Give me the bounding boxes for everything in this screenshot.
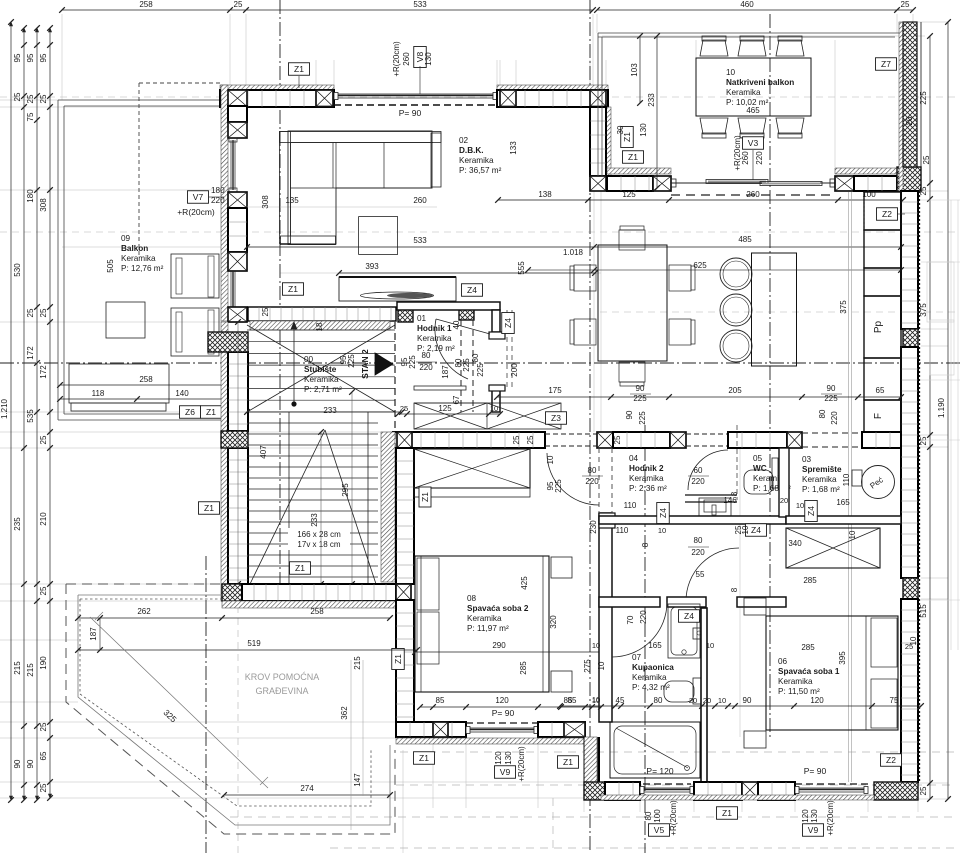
pier X north x590 [590,90,606,107]
wc toilet [772,458,778,488]
svg-text:25: 25 [13,92,22,101]
svg-text:130: 130 [424,52,433,66]
svg-text:Z1: Z1 [288,284,298,294]
svg-text:Keramika: Keramika [629,474,664,483]
balcony 09 armchair 2 [171,308,219,356]
svg-text:Z1: Z1 [295,563,305,573]
svg-text:110: 110 [624,501,637,510]
balcony 09 armchair 1 [171,254,219,298]
svg-text:258: 258 [310,607,324,616]
stair treads upper [247,329,395,331]
label box Z1 closet [419,487,431,507]
sideboard with tv [339,277,456,301]
svg-text:133: 133 [509,141,518,155]
svg-text:30: 30 [616,125,625,134]
svg-text:220: 220 [211,196,225,205]
svg-text:110: 110 [842,473,851,486]
svg-text:120: 120 [801,809,810,823]
stair V lines lower [250,430,325,584]
svg-text:Z4: Z4 [751,525,761,535]
svg-text:80: 80 [588,466,597,475]
window V7 west [230,140,232,190]
label box Z3 [546,412,567,425]
svg-text:220: 220 [830,411,839,425]
svg-text:95: 95 [26,53,35,62]
vertical dims near balcony 103 233 130 [639,36,641,103]
svg-text:Keramika: Keramika [778,677,813,686]
kitchen counter front lines [848,192,850,782]
svg-text:V9: V9 [500,767,511,777]
svg-text:80: 80 [694,536,703,545]
svg-text:P: 11,97 m²: P: 11,97 m² [467,624,509,633]
wall stairs south y584 [222,584,242,601]
pier X north x500 [500,90,516,107]
coffee table [359,217,398,255]
svg-text:25: 25 [26,94,35,103]
svg-text:120: 120 [494,751,503,765]
svg-text:45: 45 [616,696,625,705]
wall y432 right of door [728,432,787,448]
svg-text:V3: V3 [748,138,759,148]
svg-text:Z1: Z1 [420,492,430,502]
svg-text:533: 533 [413,0,427,9]
label box Z1 balcony [201,406,222,419]
svg-text:215: 215 [26,663,35,677]
krov dims [78,617,390,619]
svg-text:220: 220 [691,548,705,557]
svg-text:Keramika: Keramika [417,334,452,343]
svg-text:+R(20cm): +R(20cm) [392,41,401,77]
svg-text:235: 235 [13,517,22,531]
svg-text:Z3: Z3 [551,413,561,423]
balcony 09 outline [58,100,222,420]
extension grid lines [0,99,222,101]
svg-text:375: 375 [919,303,928,317]
svg-text:165: 165 [836,498,850,507]
dining chair top [619,230,645,250]
svg-text:F: F [873,413,884,419]
svg-text:308: 308 [261,195,270,209]
svg-text:20: 20 [689,696,697,705]
svg-text:KROV POMOĆNA: KROV POMOĆNA [245,672,320,682]
bed bedroom1 [766,616,898,730]
svg-text:90: 90 [26,759,35,768]
top dim chain [62,9,593,11]
svg-text:06: 06 [778,657,788,666]
svg-text:GRAĐEVINA: GRAĐEVINA [255,686,308,696]
opening dashes hodnik1 east [506,310,508,387]
svg-text:20: 20 [905,116,914,125]
closet X hodnik1 south [414,403,561,429]
svg-text:258: 258 [139,0,153,9]
svg-text:258: 258 [139,375,153,384]
window west lower [230,271,232,307]
bedroom1 entry arc [686,548,739,601]
dining chairs right [669,265,691,291]
svg-text:02: 02 [459,136,469,145]
svg-text:25: 25 [39,586,48,595]
svg-text:172: 172 [26,346,35,360]
bar stools circles [720,258,752,290]
svg-text:P: 2,36 m²: P: 2,36 m² [629,484,667,493]
svg-text:8: 8 [641,542,650,547]
svg-text:233: 233 [647,93,656,107]
svg-text:70: 70 [626,615,635,624]
svg-text:10: 10 [490,404,498,413]
main interior wall y432 left segment [393,432,545,448]
svg-text:P: 11,50 m²: P: 11,50 m² [778,687,820,696]
bathtub [610,722,700,778]
window V7 label [188,191,209,204]
svg-text:Z4: Z4 [684,611,694,621]
svg-text:180: 180 [26,189,35,203]
svg-text:+R(20cm): +R(20cm) [177,207,215,217]
svg-text:530: 530 [13,263,22,277]
svg-text:393: 393 [365,262,379,271]
natkriveni balkon rail top [598,33,899,176]
svg-text:55: 55 [696,570,705,579]
svg-text:535: 535 [26,409,35,423]
svg-text:25: 25 [919,186,928,195]
svg-text:210: 210 [39,512,48,526]
pier X west y190 [228,192,247,208]
svg-text:225: 225 [347,354,356,368]
svg-text:146: 146 [723,496,737,505]
window V5 sill dash [643,783,691,785]
svg-text:260: 260 [402,52,411,66]
V3 window label [743,137,764,150]
axis line vertical x590 [589,0,591,853]
svg-text:10: 10 [658,526,666,535]
stair treads lower [247,422,378,424]
pier X x590 y176 [590,176,606,191]
wall hodnik2 south y516 [599,516,786,524]
label box Z1 sideboard [283,283,304,296]
svg-text:308: 308 [39,198,48,212]
corner crosshatch se [874,782,918,800]
svg-text:05: 05 [753,454,763,463]
svg-text:85: 85 [568,696,577,705]
svg-text:375: 375 [839,300,848,314]
svg-text:625: 625 [693,261,707,270]
balcony south wall right part [835,168,897,174]
svg-text:10: 10 [796,501,804,510]
hodnik1 door south leaf [414,386,466,390]
svg-text:200: 200 [510,363,519,377]
svg-text:260: 260 [413,196,427,205]
svg-text:Z2: Z2 [882,209,892,219]
svg-text:225: 225 [633,394,647,403]
svg-text:125: 125 [438,404,452,413]
wall y432 rightmost [862,432,901,448]
svg-text:187: 187 [441,365,450,379]
kitchen counter F [864,400,901,432]
label box Z4 shower [679,610,700,623]
svg-text:Keramika: Keramika [467,614,502,623]
svg-text:285: 285 [801,643,815,652]
svg-text:25: 25 [526,435,535,444]
svg-text:60: 60 [694,466,703,475]
svg-text:230: 230 [589,520,598,534]
svg-text:25: 25 [261,307,270,316]
svg-text:09: 09 [121,234,131,243]
svg-text:25: 25 [26,308,35,317]
balcony 09 bench [69,364,169,403]
closet X bedroom2 [414,449,530,488]
svg-text:08: 08 [467,594,477,603]
dining table [598,245,667,361]
svg-text:V5: V5 [654,825,665,835]
svg-text:25: 25 [39,722,48,731]
balcony south wall left part [607,168,671,174]
svg-text:Keramika: Keramika [459,156,494,165]
svg-text:Hodnik 1: Hodnik 1 [417,324,452,333]
bathroom small sink [693,628,705,639]
heavy dashed boundary x395 [394,322,396,462]
svg-text:1.018: 1.018 [563,248,584,257]
krov middle solid outline [78,595,390,825]
svg-text:290: 290 [492,641,506,650]
svg-text:180: 180 [211,186,225,195]
svg-text:25: 25 [919,436,928,445]
svg-text:85: 85 [436,696,445,705]
svg-text:Z1: Z1 [628,152,638,162]
svg-text:P: 12,76 m²: P: 12,76 m² [121,264,164,273]
svg-text:Z1: Z1 [419,753,429,763]
svg-text:90: 90 [13,759,22,768]
axis line vertical x645 [644,425,646,853]
svg-text:25: 25 [234,0,243,9]
bedroom2 east wall [599,513,612,722]
wall hodnik1 east upper [492,310,500,332]
svg-text:40: 40 [452,320,461,329]
svg-text:Z2: Z2 [886,755,896,765]
svg-text:10: 10 [592,641,600,650]
svg-text:25: 25 [39,783,48,792]
svg-text:285: 285 [803,576,817,585]
svg-text:1.210: 1.210 [0,398,9,419]
svg-text:10: 10 [592,695,600,704]
svg-text:Z1: Z1 [204,503,214,513]
svg-text:220: 220 [691,477,705,486]
left dim chain 4 [49,28,51,798]
svg-text:118: 118 [92,389,105,398]
left dim chain 3 [36,28,38,800]
svg-text:Keramika: Keramika [304,375,339,384]
svg-text:WC: WC [753,464,767,473]
south hatch strip [396,738,585,744]
wall DBK east upper x590 [606,107,611,176]
svg-text:Natkriveni balkon: Natkriveni balkon [726,78,794,87]
nightstands bedroom1 [744,598,766,615]
svg-text:Spavaća soba 1: Spavaća soba 1 [778,667,840,676]
svg-text:190: 190 [39,656,48,670]
svg-text:260: 260 [741,151,750,165]
dim 1018 485 625 555 [528,269,901,271]
label box Z1 wall east [623,151,644,164]
svg-text:01: 01 [417,314,427,323]
bedroom2 south window dims [420,706,601,708]
extension line x742 [739,448,741,737]
pier X south x742 [742,782,758,798]
svg-text:130: 130 [639,123,648,137]
svg-text:Z7: Z7 [881,59,891,69]
svg-text:Z6: Z6 [185,407,195,417]
kitchen counter Pp [864,296,901,358]
dim chain y398 kitchen [497,396,901,398]
wall x758-795 [758,782,795,800]
svg-text:407: 407 [259,445,268,459]
svg-text:172: 172 [39,365,48,379]
dim 393 sideboard [339,272,595,274]
svg-text:125: 125 [622,190,636,199]
label box Z4 sideboard [462,284,483,297]
svg-text:110: 110 [616,526,629,535]
wall spremiste south [786,516,901,524]
dim 138 125 260 100 chain [498,199,903,201]
hodnik2 door arc [688,450,728,490]
svg-text:233: 233 [323,406,337,415]
svg-text:220: 220 [585,477,599,486]
opening dashes bedroom2 door [545,433,597,435]
balcony chairs top row [700,40,728,56]
svg-text:262: 262 [137,607,151,616]
svg-text:10: 10 [597,661,606,670]
balcony 09 table [106,302,145,338]
svg-text:+R(20cm): +R(20cm) [669,800,678,836]
svg-text:425: 425 [520,576,529,590]
svg-text:225: 225 [408,355,417,369]
east wall pier xh1 [903,329,918,347]
svg-text:Spremište: Spremište [802,465,842,474]
extension line x594 [593,107,595,432]
svg-text:Stubište: Stubište [304,365,337,374]
neighbour outline right margin [950,200,952,650]
svg-text:8: 8 [730,491,739,496]
dashed wall spremiste north [802,432,862,434]
krov diagonal dim 325 [90,617,268,788]
svg-text:460: 460 [740,0,754,9]
closet X bedroom1 [786,528,880,568]
label box Z4 hodnik2b [657,503,670,524]
wall DBK north left segment [220,85,334,90]
label box Z1 sw [414,752,435,765]
label box Z2 [877,208,898,221]
pier X south x564 [564,722,585,737]
svg-text:Z4: Z4 [503,318,513,328]
corner crosshatch sw [584,782,605,800]
dining chairs left [574,265,596,291]
wall bedroom west [381,432,395,582]
svg-text:138: 138 [538,190,552,199]
svg-text:Keramika: Keramika [726,88,761,97]
kitchen island [752,253,797,366]
svg-text:80: 80 [471,353,480,362]
svg-text:215: 215 [353,656,362,670]
svg-text:485: 485 [738,235,752,244]
hodnik1 lower dims [398,413,500,415]
wall bathroom east x701 [701,608,707,782]
svg-text:220: 220 [755,151,764,165]
svg-text:120: 120 [810,696,824,705]
svg-text:10: 10 [909,636,918,645]
washbasin hodnik2 [699,498,731,516]
svg-text:275: 275 [583,659,592,673]
svg-text:25: 25 [919,786,928,795]
east wall outer insulation edge [919,191,921,782]
label box Z6 [180,406,201,419]
label box Z7 [876,58,897,71]
svg-text:+R(20cm): +R(20cm) [517,746,526,782]
concrete pier ne [897,167,921,191]
pier X DBK north mid [316,90,333,107]
wall between windows [694,782,742,800]
svg-text:P= 90: P= 90 [399,108,422,118]
stair west wall pier y332 [208,332,248,352]
pier XH stairs x397 y305 [398,306,413,322]
pier X y432 x597 [597,432,613,448]
stair text size [288,528,350,550]
balcony canopy dashed outline [139,82,222,84]
wall wc spremiste divider [779,448,789,517]
svg-text:533: 533 [413,236,427,245]
svg-text:Keramika: Keramika [802,475,837,484]
bedroom2 door arc [547,453,599,505]
svg-text:100: 100 [653,809,662,823]
dining chair bottom [619,362,645,382]
svg-text:Hodnik 2: Hodnik 2 [629,464,664,473]
svg-text:140: 140 [175,389,189,398]
svg-text:215: 215 [13,661,22,675]
svg-text:65: 65 [876,386,885,395]
pier X y432 x397 [397,432,412,448]
svg-text:225: 225 [919,91,928,105]
label box Z1 top [289,63,310,76]
svg-text:04: 04 [629,454,639,463]
svg-text:285: 285 [519,661,528,675]
svg-text:Keramika: Keramika [121,254,156,263]
svg-text:P= 90: P= 90 [804,766,827,776]
svg-text:220: 220 [419,363,433,372]
left dim chain 2 [23,28,25,800]
svg-text:STAN 2: STAN 2 [360,349,370,379]
hodnik1 door north arc [435,319,468,379]
svg-text:25: 25 [39,435,48,444]
bedroom2 door opening dashes [598,448,600,513]
svg-text:465: 465 [746,106,760,115]
svg-text:95: 95 [13,53,22,62]
svg-text:90: 90 [743,696,752,705]
label box Z2 bottom right [881,754,902,767]
svg-text:233: 233 [310,513,319,527]
shower cabin [668,604,700,658]
svg-text:205: 205 [728,386,742,395]
svg-text:25: 25 [613,435,622,444]
stair arrow line [293,322,295,404]
svg-text:V9: V9 [808,825,819,835]
stair west wall lower part [221,322,228,601]
svg-text:65: 65 [39,751,48,760]
label box Z1 bottom [717,807,738,820]
svg-text:P= 90: P= 90 [492,708,515,718]
svg-text:90: 90 [636,384,645,393]
svg-text:Keramika: Keramika [632,673,667,682]
svg-text:25: 25 [901,0,910,9]
svg-text:225: 225 [462,358,471,372]
svg-text:Z1: Z1 [563,757,573,767]
svg-text:90: 90 [625,410,634,419]
label box Z1 stairs [290,562,311,575]
